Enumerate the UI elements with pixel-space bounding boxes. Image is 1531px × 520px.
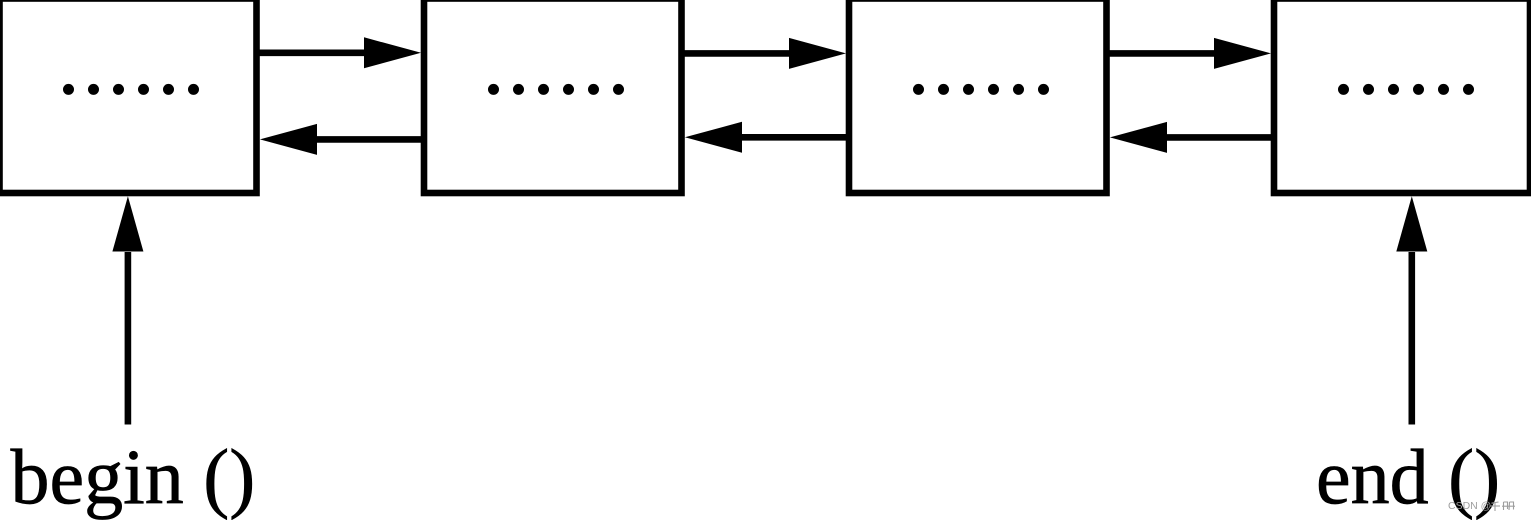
node box 4 (1274, 0, 1530, 193)
backward arrow box4 to box3 (1110, 122, 1274, 153)
svg-text:CSDN @: CSDN @ (1448, 500, 1491, 512)
ellipsis dots in box 3 (913, 84, 1049, 95)
forward arrow box1 to box2 (257, 37, 422, 68)
node box 2 (424, 0, 682, 193)
backward arrow box3 to box2 (685, 122, 849, 153)
backward arrow box2 to box1 (260, 124, 424, 155)
ellipsis dots in box 4 (1338, 84, 1474, 95)
node box 1 (0, 0, 257, 193)
end() pointer arrow up to box 4 (1396, 196, 1427, 424)
forward arrow box3 to box4 (1107, 38, 1272, 69)
ellipsis dots in box 2 (488, 84, 624, 95)
glyph 千 (1490, 502, 1500, 511)
forward arrow box2 to box3 (682, 38, 847, 69)
node box 3 (849, 0, 1107, 193)
begin() pointer arrow up to box 1 (112, 196, 143, 424)
glyph 册 (1502, 502, 1515, 510)
ellipsis dots in box 1 (63, 84, 199, 95)
svg-text:begin (): begin () (11, 433, 256, 520)
watermark CSDN @千册 (1448, 500, 1515, 512)
